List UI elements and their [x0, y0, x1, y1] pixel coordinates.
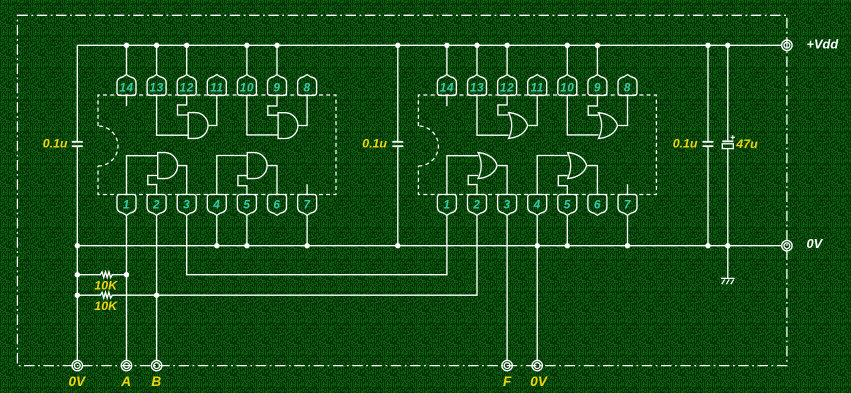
svg-text:13: 13	[149, 81, 163, 95]
svg-text:5: 5	[564, 197, 571, 211]
svg-text:8: 8	[624, 81, 631, 95]
svg-text:11: 11	[530, 81, 543, 95]
svg-text:4: 4	[533, 197, 541, 211]
svg-text:0V: 0V	[68, 374, 87, 389]
svg-text:9: 9	[273, 81, 280, 95]
svg-text:12: 12	[180, 81, 194, 95]
svg-text:B: B	[151, 374, 161, 389]
svg-text:A: A	[120, 374, 131, 389]
svg-text:2: 2	[472, 197, 480, 211]
svg-text:9: 9	[594, 81, 601, 95]
svg-text:4: 4	[212, 197, 220, 211]
svg-text:0V: 0V	[530, 374, 549, 389]
svg-text:10K: 10K	[94, 279, 118, 293]
svg-text:10: 10	[240, 81, 254, 95]
svg-text:7: 7	[624, 197, 632, 211]
svg-text:10: 10	[560, 81, 574, 95]
svg-text:0V: 0V	[807, 236, 824, 251]
svg-text:1: 1	[443, 197, 450, 211]
svg-text:2: 2	[152, 197, 160, 211]
svg-text:14: 14	[440, 81, 454, 95]
svg-text:7: 7	[304, 197, 312, 211]
svg-text:0.1u: 0.1u	[362, 137, 387, 151]
svg-text:6: 6	[594, 197, 601, 211]
svg-text:F: F	[503, 374, 512, 389]
svg-text:3: 3	[183, 197, 190, 211]
svg-text:13: 13	[470, 81, 484, 95]
svg-text:0.1u: 0.1u	[673, 137, 698, 151]
svg-text:0.1u: 0.1u	[43, 137, 68, 151]
svg-text:47u: 47u	[735, 137, 758, 151]
svg-text:6: 6	[273, 197, 280, 211]
svg-text:+Vdd: +Vdd	[807, 37, 840, 52]
svg-text:12: 12	[500, 81, 514, 95]
svg-text:14: 14	[119, 81, 133, 95]
svg-text:8: 8	[304, 81, 311, 95]
svg-text:11: 11	[210, 81, 223, 95]
svg-text:1: 1	[123, 197, 130, 211]
svg-text:10K: 10K	[94, 299, 118, 313]
svg-text:3: 3	[504, 197, 511, 211]
svg-text:5: 5	[243, 197, 250, 211]
